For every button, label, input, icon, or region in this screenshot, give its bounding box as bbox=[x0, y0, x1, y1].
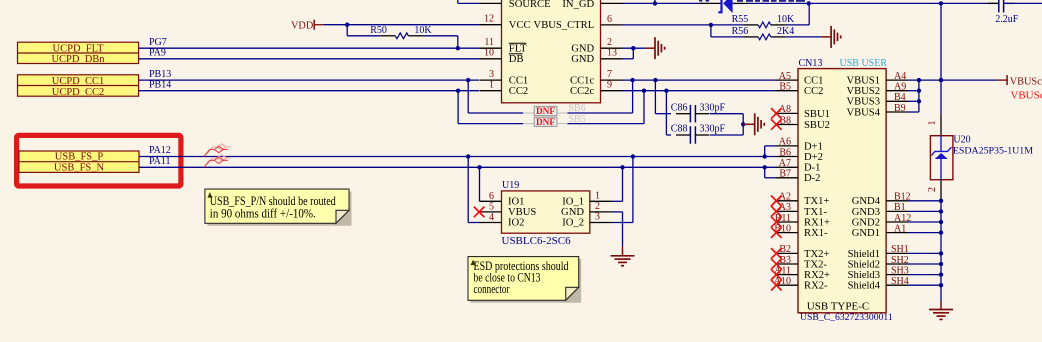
pin 1 IO_1 of U19 bbox=[590, 200, 612, 202]
svg-text:6: 6 bbox=[607, 14, 612, 25]
svg-text:CC1: CC1 bbox=[509, 75, 528, 86]
svg-text:VBUS3: VBUS3 bbox=[846, 97, 880, 108]
pin A11 RX2+ of CN13 bbox=[776, 274, 798, 276]
svg-text:CC2: CC2 bbox=[804, 86, 823, 97]
pin B10 RX1- of CN13 bbox=[776, 232, 798, 234]
svg-text:GND4: GND4 bbox=[852, 196, 881, 207]
pin A2 TX1+ of CN13 bbox=[776, 200, 798, 202]
svg-text:GND: GND bbox=[571, 54, 594, 65]
pin B8 SBU2 of CN13 bbox=[776, 124, 798, 126]
differential pair directive on PA11 bbox=[204, 155, 231, 168]
pin 12 VCC of IC bbox=[480, 24, 502, 26]
wire PG7 net bbox=[139, 47, 480, 49]
svg-text:IN_GD: IN_GD bbox=[562, 0, 594, 10]
svg-text:1: 1 bbox=[489, 80, 494, 91]
pin B1 GND3 of CN13 bbox=[886, 210, 908, 212]
svg-text:GND: GND bbox=[571, 43, 594, 54]
svg-text:330pF: 330pF bbox=[700, 102, 726, 113]
pin B9 VBUS4 of CN13 bbox=[886, 111, 908, 113]
port UCPD_DBn bbox=[18, 52, 139, 54]
junction PA11-IO_1 return bbox=[620, 165, 624, 169]
svg-text:ESDA25P35-1U1M: ESDA25P35-1U1M bbox=[953, 146, 1033, 157]
svg-text:B6: B6 bbox=[779, 147, 791, 158]
svg-text:RX2-: RX2- bbox=[804, 281, 828, 292]
no-connect X on A3 bbox=[771, 206, 782, 217]
svg-text:C86: C86 bbox=[671, 102, 688, 113]
svg-text:connector: connector bbox=[474, 282, 510, 296]
svg-text:R55: R55 bbox=[732, 14, 749, 25]
svg-text:6: 6 bbox=[489, 191, 494, 202]
wire PA11 down to U19 IO1 bbox=[479, 167, 481, 201]
wire GND pin2 bbox=[623, 47, 646, 49]
pin 6 VBUS_CTRL of IC bbox=[601, 24, 623, 26]
svg-text:7: 7 bbox=[607, 69, 612, 80]
svg-text:2.2uF: 2.2uF bbox=[995, 14, 1019, 25]
pin B2 TX2+ of CN13 bbox=[776, 252, 798, 254]
wire diode to right bbox=[748, 2, 999, 4]
svg-text:SH4: SH4 bbox=[891, 276, 909, 287]
svg-text:VBUS: VBUS bbox=[508, 207, 536, 218]
junction R50-FLT bbox=[456, 46, 460, 50]
differential pair directive on PA12 bbox=[204, 144, 231, 157]
svg-text:C88: C88 bbox=[671, 124, 688, 135]
svg-text:12: 12 bbox=[484, 14, 494, 25]
junction GND bus 264.0 bbox=[939, 262, 943, 266]
svg-text:IO1: IO1 bbox=[508, 197, 524, 208]
port UCPD_CC1 bbox=[18, 75, 139, 96]
port USB_FS_P bbox=[19, 151, 139, 172]
ground for U19 bbox=[611, 255, 635, 257]
svg-text:B1: B1 bbox=[894, 202, 906, 213]
svg-text:USB_FS_N: USB_FS_N bbox=[54, 163, 105, 174]
power port VBUSc bbox=[998, 79, 1008, 81]
svg-text:2: 2 bbox=[927, 187, 938, 192]
svg-text:U20: U20 bbox=[953, 135, 970, 146]
wire PA9 net bbox=[139, 58, 480, 60]
svg-text:VBUS_CTRL: VBUS_CTRL bbox=[534, 20, 595, 31]
svg-text:SH2: SH2 bbox=[891, 255, 909, 266]
pin A8 SBU1 of CN13 bbox=[776, 112, 798, 114]
svg-text:GND1: GND1 bbox=[852, 228, 880, 239]
svg-text:CC2: CC2 bbox=[509, 86, 528, 97]
port UCPD_FLT bbox=[18, 42, 139, 63]
svg-text:Shield4: Shield4 bbox=[848, 281, 881, 292]
svg-text:USB_C_632723300011: USB_C_632723300011 bbox=[800, 312, 893, 323]
svg-text:PG7: PG7 bbox=[149, 37, 167, 48]
wire VBUS3 stub bbox=[908, 100, 919, 102]
svg-text:UCPD_CC2: UCPD_CC2 bbox=[52, 87, 105, 98]
svg-text:SH1: SH1 bbox=[891, 244, 909, 255]
junction CC2c-C88 bbox=[664, 89, 668, 93]
wire PB14 net bbox=[139, 90, 479, 92]
svg-text:2K4: 2K4 bbox=[777, 26, 794, 37]
wire VBUS4 stub bbox=[908, 111, 919, 113]
wire IO_2 up to PA12 bbox=[612, 222, 633, 224]
wire CC2c net bbox=[623, 90, 777, 92]
svg-text:D-2: D-2 bbox=[804, 173, 820, 184]
svg-text:R50: R50 bbox=[370, 25, 387, 36]
svg-text:in 90 ohms diff +/-10%.: in 90 ohms diff +/-10%. bbox=[210, 206, 316, 220]
IC U? TCPP01 body bbox=[502, 0, 601, 103]
junction D-2 branch bbox=[763, 165, 767, 169]
svg-text:VCC: VCC bbox=[509, 20, 531, 31]
pin 1 CC2 of IC bbox=[480, 90, 502, 92]
junction CC2 branch bbox=[456, 89, 460, 93]
wire VDD branch down to R50 bbox=[346, 25, 348, 36]
junction VBUS3-tie bbox=[917, 99, 921, 103]
pin 5 VBUS of U19 bbox=[480, 211, 502, 213]
junction GND pins bbox=[631, 46, 635, 50]
capacitor C86 bbox=[676, 113, 690, 115]
svg-text:2: 2 bbox=[595, 201, 600, 212]
wire SB6 to CC1c bbox=[568, 112, 633, 114]
svg-text:D+2: D+2 bbox=[804, 152, 823, 163]
ground for R56 bbox=[830, 26, 832, 48]
svg-text:RX1-: RX1- bbox=[804, 228, 828, 239]
wire branch to D-2 bbox=[764, 167, 766, 178]
svg-text:D+1: D+1 bbox=[804, 141, 823, 152]
junction GND bus 222.0 bbox=[939, 220, 943, 224]
pin B3 TX2- of CN13 bbox=[776, 263, 798, 265]
pin A4 VBUS1 of CN13 bbox=[886, 79, 908, 81]
wire U19 GND down bbox=[612, 211, 623, 213]
wire GND/Shield stub row 211.4 bbox=[908, 210, 941, 212]
svg-text:USBLC6-2SC6: USBLC6-2SC6 bbox=[502, 235, 572, 247]
wire GND/Shield stub row 285.2 bbox=[908, 284, 941, 286]
pin 10 DB of IC bbox=[480, 58, 502, 60]
zener symbol inside U20 bbox=[940, 136, 942, 152]
junction top stub (cut) bbox=[653, 1, 657, 5]
pin 4 IO2 of U19 bbox=[480, 222, 502, 224]
ground for shield bus bbox=[940, 302, 942, 310]
pin SH3 Shield3 of CN13 bbox=[886, 274, 908, 276]
diode D? (cut at top) bbox=[700, 2, 721, 4]
resistor R50 bbox=[380, 35, 395, 37]
svg-text:9: 9 bbox=[607, 80, 612, 91]
wire GND/Shield stub row 232.6 bbox=[908, 232, 941, 234]
svg-text:3: 3 bbox=[595, 212, 600, 223]
junction PA12-IO_2 return bbox=[631, 154, 635, 158]
svg-text:CC1c: CC1c bbox=[570, 75, 594, 86]
junction GND bus 274.6 bbox=[939, 272, 943, 276]
junction PA11-U19 bbox=[477, 165, 481, 169]
svg-text:TX1-: TX1- bbox=[804, 207, 827, 218]
no-connect X on B8 bbox=[771, 119, 782, 130]
svg-text:SBU2: SBU2 bbox=[804, 120, 830, 131]
connector CN13 body bbox=[798, 69, 886, 313]
wire CC2c down to C88 bbox=[665, 91, 667, 135]
svg-text:B9: B9 bbox=[894, 103, 906, 114]
no-connect X on B3 bbox=[771, 259, 782, 270]
svg-text:A6: A6 bbox=[779, 137, 791, 148]
junction GND bus 285.2 bbox=[939, 283, 943, 287]
capacitor C? 2.2uF plates bbox=[988, 2, 998, 4]
pin 3 IO_2 of U19 bbox=[590, 222, 612, 224]
svg-text:DNF: DNF bbox=[536, 107, 555, 117]
svg-text:TX2-: TX2- bbox=[804, 259, 827, 270]
wire VBUS_CTRL to R55 bbox=[623, 24, 744, 26]
pin 11 FLT of IC bbox=[480, 47, 502, 49]
resistor R55 bbox=[743, 24, 758, 26]
wire CC2 down to SB5 bbox=[457, 91, 459, 124]
svg-text:GND: GND bbox=[561, 207, 584, 218]
pin A9 VBUS2 of CN13 bbox=[886, 90, 908, 92]
wire CC1c net bbox=[623, 79, 777, 81]
solder bridge SB6 (DNF) bbox=[523, 112, 534, 114]
ground for C86/C88 bbox=[743, 123, 755, 125]
svg-text:11: 11 bbox=[484, 37, 494, 48]
svg-text:VDD: VDD bbox=[291, 21, 314, 32]
wire GND bus vertical bbox=[940, 201, 942, 302]
pin 9 CC2c of IC bbox=[601, 90, 623, 92]
junction GND bus 253.4 bbox=[939, 251, 943, 255]
junction VBUS1-tie bbox=[917, 78, 921, 82]
no-connect X on U19 pin 5 bbox=[474, 207, 485, 218]
svg-text:IO2: IO2 bbox=[508, 218, 524, 229]
wire C86 to ground node bbox=[710, 113, 743, 115]
wire CC1c down to C86 bbox=[654, 80, 656, 114]
wire top net down to U20 bbox=[940, 3, 942, 113]
svg-text:UCPD_DBn: UCPD_DBn bbox=[51, 54, 105, 65]
svg-text:DNF: DNF bbox=[536, 118, 555, 128]
wire GND/Shield stub row 200.8 bbox=[908, 200, 941, 202]
svg-text:3: 3 bbox=[489, 69, 494, 80]
wire VBUS1 net bbox=[908, 79, 998, 81]
wire R55 up to top net bbox=[786, 24, 810, 26]
IC U19 body bbox=[502, 191, 590, 233]
wire IN_GD net top bbox=[623, 2, 701, 4]
pin B4 VBUS3 of CN13 bbox=[886, 100, 908, 102]
TVS diode U20 body bbox=[930, 136, 953, 180]
port UCPD_CC2 bbox=[18, 85, 139, 87]
svg-text:SH3: SH3 bbox=[891, 265, 909, 276]
svg-text:VBUS2: VBUS2 bbox=[846, 86, 880, 97]
junction R55 top bbox=[807, 1, 811, 5]
svg-text:VBUSc: VBUSc bbox=[1010, 76, 1042, 87]
svg-text:IO_2: IO_2 bbox=[562, 218, 584, 229]
junction caps-ground bbox=[741, 122, 745, 126]
svg-text:10K: 10K bbox=[414, 25, 432, 36]
junction GND bus 200.8 bbox=[939, 199, 943, 203]
pin 3 CC1 of IC bbox=[480, 79, 502, 81]
pin B6 D+2 of CN13 bbox=[776, 156, 798, 158]
wire PB13 net bbox=[139, 79, 479, 81]
junction R55/R56 split bbox=[709, 23, 713, 27]
wire R56 to ground bbox=[786, 36, 822, 38]
svg-text:CC2c: CC2c bbox=[570, 86, 594, 97]
highlight box around USB_FS ports bbox=[17, 135, 181, 186]
svg-text:A1: A1 bbox=[894, 223, 906, 234]
svg-text:13: 13 bbox=[607, 48, 617, 59]
svg-text:U19: U19 bbox=[502, 180, 519, 191]
wire R56 branch bbox=[710, 25, 712, 37]
pin A12 GND2 of CN13 bbox=[886, 221, 908, 223]
junction PA12-U19 bbox=[466, 154, 470, 158]
svg-text:B7: B7 bbox=[779, 169, 791, 180]
wire GND pin13 up bbox=[623, 58, 634, 60]
svg-text:A5: A5 bbox=[779, 71, 791, 82]
svg-text:1: 1 bbox=[595, 191, 600, 202]
svg-text:GND3: GND3 bbox=[852, 207, 880, 218]
junction SB6-CC1c bbox=[630, 78, 634, 82]
junction VBUSc node bbox=[939, 78, 943, 82]
wire CC1 down to SB6 bbox=[467, 80, 469, 113]
pin B5 CC2 of CN13 bbox=[776, 90, 798, 92]
port USB_FS_N bbox=[19, 161, 139, 163]
svg-text:330pF: 330pF bbox=[700, 124, 726, 135]
svg-text:TX2+: TX2+ bbox=[804, 249, 829, 260]
pin 2 GND of U19 bbox=[590, 211, 612, 213]
svg-text:SBU1: SBU1 bbox=[804, 109, 830, 120]
svg-text:PB14: PB14 bbox=[149, 79, 171, 90]
svg-text:R56: R56 bbox=[732, 26, 749, 37]
no-connect X on A8 bbox=[771, 108, 782, 119]
svg-text:USB_FS_P: USB_FS_P bbox=[55, 152, 104, 163]
wire cap to right edge bbox=[1004, 2, 1042, 4]
pin 1 of U20 bbox=[940, 114, 942, 136]
svg-text:B5: B5 bbox=[779, 82, 791, 93]
pin A5 CC1 of CN13 bbox=[776, 79, 798, 81]
svg-text:D-1: D-1 bbox=[804, 163, 820, 174]
junction VBUS2-tie bbox=[917, 89, 921, 93]
svg-text:DB: DB bbox=[509, 54, 524, 65]
wire branch to D+1 bbox=[764, 146, 766, 157]
pin B12 GND4 of CN13 bbox=[886, 200, 908, 202]
svg-text:A4: A4 bbox=[894, 71, 906, 82]
svg-text:RX1+: RX1+ bbox=[804, 217, 830, 228]
svg-text:IO_1: IO_1 bbox=[562, 197, 584, 208]
svg-text:USB USER: USB USER bbox=[840, 58, 888, 69]
svg-text:VBUSc: VBUSc bbox=[1010, 89, 1042, 101]
svg-text:A9: A9 bbox=[894, 82, 906, 93]
svg-text:GND2: GND2 bbox=[852, 217, 880, 228]
wire GND/Shield stub row 222.0 bbox=[908, 221, 941, 223]
no-connect X on B2 bbox=[771, 248, 782, 259]
wire GND/Shield stub row 253.4 bbox=[908, 252, 941, 254]
svg-text:2: 2 bbox=[607, 37, 612, 48]
no-connect X on B11 bbox=[771, 217, 782, 228]
junction D+1 branch bbox=[763, 154, 767, 158]
wire USB_FS_P (PA12) net bbox=[139, 156, 776, 158]
junction SB5-CC2c bbox=[642, 89, 646, 93]
capacitor C88 bbox=[676, 134, 690, 136]
pin 2 GND of IC bbox=[601, 47, 623, 49]
svg-text:FLT: FLT bbox=[509, 43, 527, 54]
pin SH2 Shield2 of CN13 bbox=[886, 263, 908, 265]
solder bridge SB5 (DNF) bbox=[523, 123, 534, 125]
pin B7 D-2 of CN13 bbox=[776, 177, 798, 179]
svg-text:A7: A7 bbox=[779, 158, 791, 169]
junction CC1 branch bbox=[466, 78, 470, 82]
svg-text:10: 10 bbox=[484, 48, 494, 59]
junction VBUS vertical top bbox=[939, 1, 943, 5]
junction GND bus 232.6 bbox=[939, 230, 943, 234]
wire R50 to FLT net bbox=[423, 35, 457, 37]
svg-text:Shield2: Shield2 bbox=[848, 259, 880, 270]
junction CC1c-C86 bbox=[653, 78, 657, 82]
svg-text:PB13: PB13 bbox=[149, 69, 171, 80]
svg-text:RX2+: RX2+ bbox=[804, 270, 830, 281]
svg-text:CN13: CN13 bbox=[799, 58, 823, 69]
note: ESD protections bbox=[471, 259, 582, 303]
pin A10 RX2- of CN13 bbox=[776, 284, 798, 286]
wire USB_FS_N (PA11) net bbox=[139, 166, 776, 168]
no-connect X on A10 bbox=[771, 280, 782, 291]
svg-text:USB TYPE-C: USB TYPE-C bbox=[807, 300, 869, 312]
svg-text:1: 1 bbox=[927, 121, 938, 126]
resistor R56 bbox=[743, 36, 758, 38]
svg-text:5: 5 bbox=[489, 202, 494, 213]
svg-text:TX1+: TX1+ bbox=[804, 196, 829, 207]
junction VDD node bbox=[345, 23, 349, 27]
pin SOURCE of IC bbox=[457, 0, 459, 3]
wire joining C86/C88 bbox=[742, 114, 744, 135]
svg-text:CC1: CC1 bbox=[804, 76, 823, 87]
wire SB5 to CC2c bbox=[568, 123, 645, 125]
no-connect X on A2 bbox=[771, 196, 782, 207]
cut-off text fragments above diode bbox=[699, 0, 805, 2]
svg-text:10K: 10K bbox=[777, 14, 795, 25]
pin IN_GD of IC bbox=[601, 2, 623, 4]
no-connect X on A11 bbox=[771, 269, 782, 280]
wire GND/Shield stub row 274.6 bbox=[908, 274, 941, 276]
wire PA12 down to U19 IO2 bbox=[467, 157, 469, 223]
wire C88 to ground node bbox=[710, 134, 743, 136]
svg-text:B4: B4 bbox=[894, 92, 906, 103]
wire VDD to VCC pin bbox=[324, 24, 480, 26]
wire IO_1 up to PA11 bbox=[612, 200, 623, 202]
no-connect X on B10 bbox=[771, 227, 782, 238]
pin 2 of U20 bbox=[940, 180, 942, 201]
svg-text:4: 4 bbox=[489, 212, 494, 223]
pin 6 IO1 of U19 bbox=[480, 200, 502, 202]
svg-text:SOURCE: SOURCE bbox=[509, 0, 551, 10]
pin A1 GND1 of CN13 bbox=[886, 232, 908, 234]
svg-text:VBUS4: VBUS4 bbox=[846, 107, 880, 118]
note: USB_FS_P/N routing bbox=[207, 192, 351, 226]
svg-text:PA11: PA11 bbox=[149, 156, 171, 167]
pin 7 CC1c of IC bbox=[601, 79, 623, 81]
wire GND/Shield stub row 264.0 bbox=[908, 263, 941, 265]
junction GND bus 211.4 bbox=[939, 209, 943, 213]
pin A7 D-1 of CN13 bbox=[776, 166, 798, 168]
svg-text:Shield1: Shield1 bbox=[848, 249, 880, 260]
svg-text:PA9: PA9 bbox=[149, 48, 166, 59]
pin SH4 Shield4 of CN13 bbox=[886, 284, 908, 286]
svg-text:Shield3: Shield3 bbox=[848, 270, 880, 281]
pin B11 RX1+ of CN13 bbox=[776, 221, 798, 223]
svg-text:PA12: PA12 bbox=[149, 145, 171, 156]
svg-text:VBUS1: VBUS1 bbox=[846, 76, 880, 87]
ground for IC GND pins bbox=[645, 47, 655, 49]
pin SH1 Shield1 of CN13 bbox=[886, 252, 908, 254]
pin A6 D+1 of CN13 bbox=[776, 145, 798, 147]
wire VBUS tie vertical bbox=[918, 80, 920, 112]
pin A3 TX1- of CN13 bbox=[776, 210, 798, 212]
pin 13 GND of IC bbox=[479, 58, 481, 60]
wire VBUS2 stub bbox=[908, 90, 919, 92]
